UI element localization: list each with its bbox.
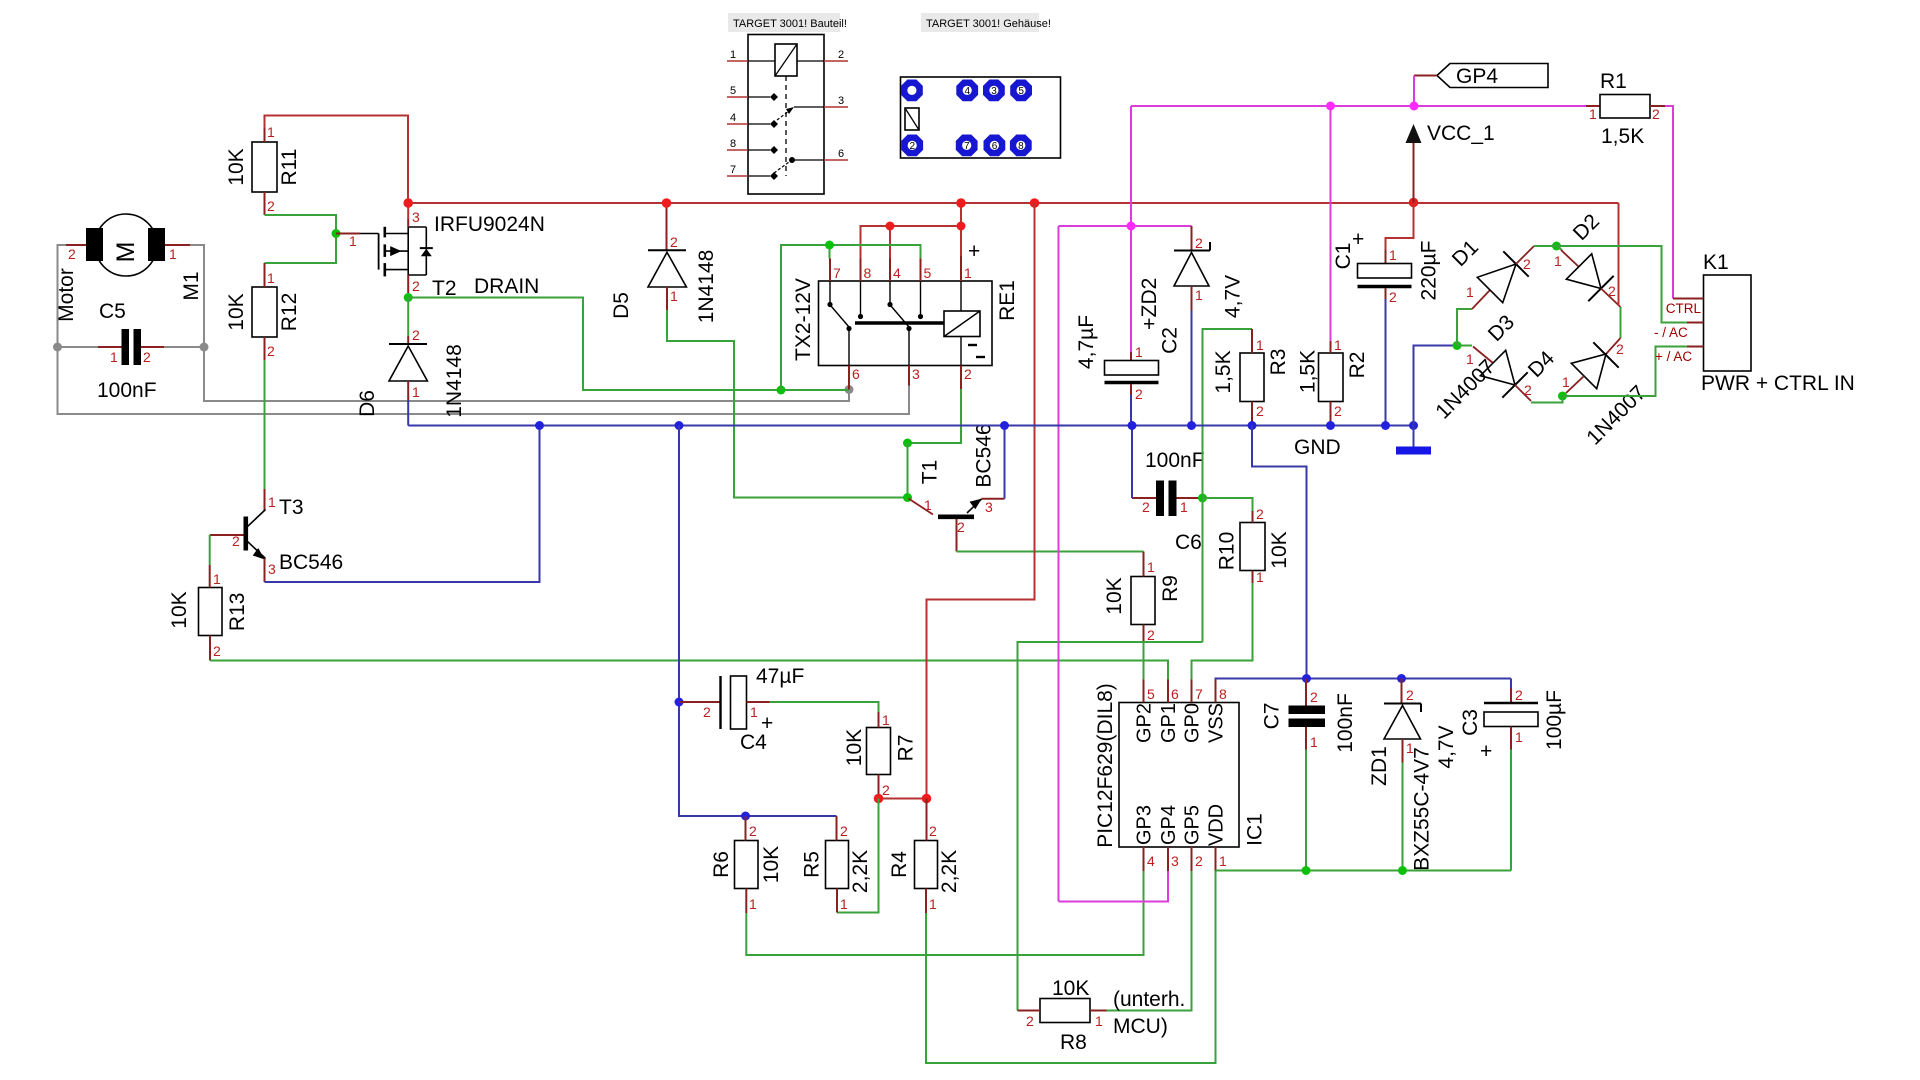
wire relay pins 7,5 green bracket — [781, 245, 921, 390]
node T1 collector top — [903, 439, 912, 448]
svg-text:MCU): MCU) — [1113, 1015, 1168, 1038]
diode D2 1N4007 — [1554, 210, 1621, 307]
svg-text:1: 1 — [1147, 559, 1155, 575]
wire T1 emitter to GND bus — [1004, 426, 1006, 499]
svg-text:GND: GND — [1294, 436, 1341, 459]
wire red net rail to R7/R4 — [927, 203, 1035, 799]
header label TARGET 3001! Gehaeuse! — [921, 13, 1051, 32]
wire red junction R7/R4/R5 — [879, 798, 927, 800]
svg-text:1: 1 — [1389, 247, 1397, 263]
junction VDD green dots — [1302, 866, 1311, 875]
wire drain net to relay pin 6 — [408, 298, 849, 391]
svg-text:GP4: GP4 — [1456, 65, 1498, 88]
svg-text:8: 8 — [1219, 686, 1227, 702]
svg-text:2: 2 — [1515, 687, 1523, 703]
svg-text:M1: M1 — [180, 271, 203, 300]
svg-text:8: 8 — [730, 138, 736, 150]
svg-text:1: 1 — [1515, 729, 1523, 745]
junction magenta dots — [1127, 102, 1419, 231]
svg-text:R11: R11 — [278, 149, 301, 186]
svg-text:R7: R7 — [895, 735, 918, 762]
svg-text:R4: R4 — [888, 851, 911, 878]
svg-text:1: 1 — [1256, 337, 1264, 353]
svg-text:GP0: GP0 — [1182, 703, 1204, 743]
svg-text:2: 2 — [1608, 283, 1616, 299]
node bridge left — [1453, 341, 1462, 350]
svg-text:D6: D6 — [356, 390, 379, 417]
pad 5 — [1010, 80, 1032, 102]
svg-text:1: 1 — [1180, 499, 1188, 515]
svg-text:M: M — [112, 242, 140, 263]
svg-text:+: + — [1143, 313, 1155, 336]
svg-text:1: 1 — [750, 704, 758, 720]
svg-text:- / AC: - / AC — [1654, 325, 1688, 340]
svg-text:ZD2: ZD2 — [1138, 278, 1161, 318]
svg-text:1: 1 — [1256, 569, 1264, 585]
svg-text:1: 1 — [267, 270, 275, 286]
svg-text:C4: C4 — [740, 731, 767, 754]
wire R12 to T3 collector — [264, 360, 266, 489]
svg-text:GP1: GP1 — [1158, 703, 1180, 743]
svg-text:2: 2 — [1142, 499, 1150, 515]
node bridge bottom — [1558, 392, 1567, 401]
node T1 collector — [903, 493, 912, 502]
pad 4 — [956, 80, 978, 102]
svg-text:47µF: 47µF — [756, 665, 804, 688]
pad 2 — [901, 135, 923, 157]
svg-text:R3: R3 — [1267, 349, 1290, 376]
svg-text:C5: C5 — [99, 300, 126, 323]
svg-text:6: 6 — [852, 366, 860, 382]
svg-text:1N4148: 1N4148 — [695, 250, 718, 324]
wire GND branch from bus — [1252, 426, 1307, 679]
svg-text:1: 1 — [1554, 253, 1562, 269]
svg-text:2: 2 — [964, 366, 972, 382]
svg-text:TARGET 3001! Bauteil!: TARGET 3001! Bauteil! — [733, 18, 847, 30]
svg-text:GP4: GP4 — [1158, 805, 1180, 845]
svg-text:1: 1 — [1334, 337, 1342, 353]
svg-text:1,5K: 1,5K — [1212, 350, 1235, 393]
svg-text:1,5K: 1,5K — [1601, 125, 1644, 148]
svg-text:GP3: GP3 — [1134, 805, 1156, 845]
wire R5 pin1 to red junction — [837, 799, 879, 913]
svg-text:100µF: 100µF — [1543, 690, 1566, 750]
wire GND bus — [408, 425, 1413, 427]
svg-text:1: 1 — [412, 384, 420, 400]
motor M1 — [55, 214, 203, 322]
capacitor C1 220uF — [1332, 203, 1441, 306]
svg-text:100nF: 100nF — [1334, 693, 1357, 753]
svg-text:2: 2 — [929, 823, 937, 839]
svg-text:2: 2 — [749, 823, 757, 839]
svg-text:1: 1 — [268, 494, 276, 510]
relay symbol box (library part preview) — [727, 35, 848, 195]
connector K1 — [1654, 251, 1855, 395]
node relay pin7 net joins drain line — [777, 386, 786, 395]
wire C6 pin2 to GND bus — [1131, 426, 1133, 499]
svg-text:2: 2 — [1389, 289, 1397, 305]
wire C1 to GND bus — [1385, 299, 1387, 426]
svg-text:R9: R9 — [1159, 575, 1182, 602]
svg-text:2: 2 — [957, 519, 965, 535]
resistor R2 — [1297, 337, 1370, 426]
svg-text:PIC12F629(DIL8): PIC12F629(DIL8) — [1094, 683, 1117, 848]
svg-text:1: 1 — [840, 896, 848, 912]
svg-text:+: + — [968, 240, 980, 263]
wire drain down to D6 — [407, 298, 409, 337]
wire GP2/R9 net y642 — [1018, 642, 1203, 1011]
svg-text:2: 2 — [232, 533, 240, 549]
svg-text:R1: R1 — [1600, 70, 1627, 93]
zener ZD1 BXZ55C-4V7 — [1368, 679, 1458, 871]
svg-text:C2: C2 — [1159, 327, 1182, 354]
wire D6 anode to GND bus — [407, 400, 409, 426]
wire T3 emitter to GND bus — [265, 426, 540, 583]
svg-text:CTRL: CTRL — [1666, 301, 1702, 316]
wire relay pins 8,4,1 to rail — [861, 203, 962, 259]
svg-text:C1: C1 — [1332, 243, 1355, 270]
svg-text:10K: 10K — [843, 729, 866, 766]
package footprint preview box — [901, 77, 1061, 158]
svg-text:R6: R6 — [710, 851, 733, 878]
svg-text:4,7V: 4,7V — [1435, 725, 1458, 768]
wire R10 pin1 down to GP0 — [1192, 583, 1253, 680]
junction blue dots C7/ZD1 top — [1302, 674, 1311, 683]
svg-text:5: 5 — [1147, 686, 1155, 702]
capacitor C7 100nF — [1261, 679, 1358, 753]
svg-text:TX2-12V: TX2-12V — [792, 278, 815, 361]
wire T3 base to R13 — [209, 535, 211, 565]
svg-text:3: 3 — [991, 86, 997, 97]
svg-text:1: 1 — [749, 896, 757, 912]
svg-text:10K: 10K — [1268, 531, 1291, 568]
svg-text:RE1: RE1 — [996, 280, 1019, 321]
diode D5 1N4148 — [610, 203, 718, 323]
resistor R5 — [801, 816, 873, 913]
svg-text:5: 5 — [924, 265, 932, 281]
svg-text:1: 1 — [349, 233, 357, 249]
svg-text:C7: C7 — [1261, 703, 1284, 730]
wire R13 to IC1 GP1 (long green) — [210, 661, 1168, 680]
svg-text:1: 1 — [1135, 344, 1143, 360]
svg-text:R12: R12 — [278, 293, 301, 332]
svg-text:3: 3 — [412, 209, 420, 225]
resistor R10 — [1216, 506, 1292, 585]
svg-text:1: 1 — [929, 896, 937, 912]
svg-text:2: 2 — [1195, 853, 1203, 869]
pad 7 — [956, 135, 978, 157]
svg-text:R13: R13 — [226, 593, 249, 632]
junction GND bus dots — [535, 421, 1418, 430]
svg-text:1: 1 — [1195, 287, 1203, 303]
svg-text:1: 1 — [1466, 284, 1474, 300]
svg-text:8: 8 — [864, 265, 872, 281]
junction C4 pin2 — [675, 698, 684, 707]
node C6 pin1 — [1198, 494, 1207, 503]
svg-text:5: 5 — [1018, 86, 1024, 97]
svg-text:C3: C3 — [1459, 709, 1482, 736]
svg-text:TARGET 3001! Gehäuse!: TARGET 3001! Gehäuse! — [926, 18, 1051, 30]
capacitor C6 100nF — [1132, 449, 1205, 554]
wire D5 anode to T1 collector — [667, 310, 908, 498]
svg-text:2: 2 — [670, 234, 678, 250]
resistor R11 — [225, 116, 301, 216]
svg-text:2: 2 — [1310, 689, 1318, 705]
pad 6 — [984, 135, 1006, 157]
svg-text:T3: T3 — [279, 496, 304, 519]
wire IC1 GP5 to R8 pin1 — [1107, 871, 1192, 1011]
capacitor C5 — [97, 300, 164, 402]
svg-text:2: 2 — [882, 782, 890, 798]
capacitor C2 4,7uF — [1075, 313, 1182, 402]
svg-text:10K: 10K — [225, 148, 248, 185]
svg-text:2: 2 — [412, 278, 420, 294]
svg-text:1: 1 — [1219, 853, 1227, 869]
svg-text:4: 4 — [1147, 853, 1155, 869]
svg-text:1: 1 — [1310, 734, 1318, 750]
svg-text:3: 3 — [838, 95, 844, 107]
svg-text:3: 3 — [1171, 853, 1179, 869]
node relay pin7 bracket — [825, 241, 834, 250]
svg-text:K1: K1 — [1703, 251, 1729, 274]
svg-text:7: 7 — [1195, 686, 1203, 702]
svg-text:R8: R8 — [1060, 1031, 1087, 1054]
svg-text:2,2K: 2,2K — [849, 850, 872, 893]
svg-text:7: 7 — [730, 164, 736, 176]
wire bridge bottom to K1 +/AC — [1563, 347, 1688, 397]
wire C2 to GND bus — [1130, 395, 1132, 426]
svg-text:C6: C6 — [1175, 531, 1202, 554]
wire R8 pin2 from GP2 net — [1017, 1010, 1019, 1012]
wire C6 node to R10 — [1203, 498, 1253, 511]
wire node down to collector — [907, 443, 909, 498]
svg-text:4: 4 — [965, 86, 971, 97]
wire motor/C5 gray net — [58, 245, 910, 414]
transistor T1 BC546 — [909, 423, 1005, 551]
svg-text:2: 2 — [1616, 341, 1624, 357]
resistor R4 — [888, 799, 961, 914]
svg-text:+ / AC: + / AC — [1655, 349, 1692, 364]
relay pin stubs — [829, 259, 831, 282]
svg-text:(unterh.: (unterh. — [1113, 988, 1185, 1011]
transistor T2 IRFU9024N — [336, 209, 545, 300]
node T2 drain — [404, 293, 413, 302]
wire relay pin2 to T1 collector — [908, 389, 962, 443]
svg-text:1,5K: 1,5K — [1297, 350, 1320, 393]
svg-text:R5: R5 — [801, 851, 824, 878]
svg-text:VCC_1: VCC_1 — [1427, 122, 1495, 145]
wire ZD2 to GND bus — [1191, 311, 1193, 426]
diode D4 1N4007 — [1524, 338, 1651, 450]
diode D3 1N4007 — [1431, 311, 1562, 424]
capacitor C4 47uF — [679, 665, 804, 754]
svg-text:2: 2 — [213, 643, 221, 659]
svg-text:4: 4 — [893, 265, 901, 281]
svg-text:1: 1 — [882, 712, 890, 728]
svg-text:VDD: VDD — [1206, 804, 1228, 846]
wire C6 node down to GP2 line — [1202, 498, 1204, 642]
svg-text:2: 2 — [703, 704, 711, 720]
svg-text:2: 2 — [1026, 1013, 1034, 1029]
svg-text:2: 2 — [1135, 386, 1143, 402]
resistor R1 — [1589, 70, 1660, 148]
svg-text:1: 1 — [213, 571, 221, 587]
resistor R13 — [168, 565, 249, 661]
node T2 gate junction — [332, 229, 341, 238]
wire bridge right node — [1619, 203, 1621, 338]
svg-text:6: 6 — [1171, 686, 1179, 702]
svg-text:6: 6 — [838, 148, 844, 160]
svg-text:GP2: GP2 — [1134, 703, 1156, 743]
svg-text:BXZ55C-4V7: BXZ55C-4V7 — [1411, 747, 1434, 871]
svg-text:1: 1 — [110, 349, 118, 365]
wire bridge top to K1 -/AC — [1557, 246, 1688, 323]
svg-text:1: 1 — [924, 497, 932, 513]
svg-text:1N4148: 1N4148 — [443, 344, 466, 418]
svg-text:2,2K: 2,2K — [938, 850, 961, 893]
junction red dots — [874, 794, 884, 804]
svg-text:R10: R10 — [1216, 532, 1239, 571]
svg-text:D5: D5 — [610, 292, 633, 319]
svg-text:2: 2 — [143, 349, 151, 365]
pad 3 — [983, 80, 1005, 102]
transistor T3 BC546 — [210, 489, 344, 582]
svg-text:5: 5 — [730, 85, 736, 97]
svg-text:2: 2 — [1195, 235, 1203, 251]
pin stubs of symbol preview — [727, 60, 748, 62]
capacitor C3 100uF — [1459, 679, 1566, 764]
wire GP4 magenta net — [1059, 106, 1601, 902]
svg-text:+: + — [1480, 740, 1492, 763]
svg-text:BC546: BC546 — [973, 423, 996, 487]
svg-text:100nF: 100nF — [97, 379, 157, 402]
pad 1 — [901, 80, 923, 102]
svg-text:1: 1 — [1589, 106, 1597, 122]
svg-text:2: 2 — [1256, 506, 1264, 522]
resistor R7 — [843, 712, 918, 799]
wire GND bus to bridge left node — [1414, 346, 1458, 426]
svg-text:1: 1 — [1095, 1013, 1103, 1029]
wire GND bus branch to C4/R6/R5 — [679, 426, 837, 817]
svg-text:1: 1 — [730, 49, 736, 61]
svg-text:2: 2 — [910, 141, 916, 152]
wire R11 top to VCC rail — [265, 116, 409, 204]
svg-text:IC1: IC1 — [1244, 813, 1267, 846]
svg-text:1: 1 — [267, 124, 275, 140]
ground symbol — [1396, 426, 1431, 451]
svg-text:4,7V: 4,7V — [1222, 275, 1245, 318]
pad 8 — [1010, 135, 1032, 157]
wire IC1 VSS to GND branch — [1216, 679, 1512, 680]
svg-text:4: 4 — [730, 112, 736, 124]
svg-text:1: 1 — [670, 288, 678, 304]
wire R6 pin1 to IC1 GP3 — [746, 871, 1143, 955]
wire R1 pin2 to K1 CTRL — [1650, 105, 1665, 107]
svg-text:PWR + CTRL IN: PWR + CTRL IN — [1701, 372, 1855, 395]
junction R6 pin2 — [741, 812, 750, 821]
svg-text:BC546: BC546 — [279, 551, 343, 574]
svg-text:4,7µF: 4,7µF — [1075, 315, 1098, 369]
svg-text:2: 2 — [1524, 382, 1532, 398]
svg-text:VSS: VSS — [1206, 703, 1228, 743]
node bridge top — [1552, 242, 1561, 251]
svg-text:3: 3 — [268, 561, 276, 577]
junction gray dots — [53, 343, 854, 395]
diode D1 1N4007 — [1448, 236, 1557, 346]
svg-text:2: 2 — [267, 343, 275, 359]
svg-text:2: 2 — [1523, 256, 1531, 272]
svg-text:1: 1 — [964, 265, 972, 281]
svg-text:3: 3 — [912, 366, 920, 382]
svg-text:10K: 10K — [168, 591, 191, 628]
svg-text:1: 1 — [1562, 374, 1570, 390]
svg-text:7: 7 — [964, 141, 970, 152]
wire C4 pin1 to R7 — [770, 702, 879, 712]
resistor R12 — [225, 263, 301, 360]
relay RE1 TX2-12V — [792, 240, 1019, 390]
resistor R8 — [1018, 977, 1186, 1054]
resistor R3 — [1212, 329, 1290, 426]
svg-text:2: 2 — [1334, 403, 1342, 419]
power symbol VCC_1 — [1406, 122, 1495, 203]
wire C6 node up to R3 — [1203, 329, 1253, 498]
svg-text:2: 2 — [1147, 627, 1155, 643]
svg-text:10K: 10K — [760, 846, 783, 883]
svg-text:220µF: 220µF — [1418, 241, 1441, 301]
svg-text:2: 2 — [838, 49, 844, 61]
wire T2 source to rail — [407, 203, 409, 219]
svg-text:10K: 10K — [225, 293, 248, 330]
zener ZD2 4,7V — [1138, 226, 1245, 318]
svg-text:2: 2 — [1406, 687, 1414, 703]
svg-text:2: 2 — [412, 327, 420, 343]
svg-text:8: 8 — [1018, 141, 1024, 152]
svg-text:ZD1: ZD1 — [1368, 746, 1391, 786]
wire R11/R12 to T2 gate (green bracket) — [265, 215, 337, 263]
wire VCC rail — [408, 202, 1618, 204]
junction rail dots — [403, 198, 1418, 208]
svg-text:R2: R2 — [1346, 352, 1369, 379]
svg-text:100nF: 100nF — [1145, 449, 1205, 472]
wire VDD net bottom — [1216, 750, 1512, 871]
svg-text:2: 2 — [267, 198, 275, 214]
svg-text:GP5: GP5 — [1182, 805, 1204, 845]
resistor R6 — [710, 816, 783, 913]
junction relay red — [886, 222, 895, 231]
svg-text:7: 7 — [833, 265, 841, 281]
svg-text:2: 2 — [840, 823, 848, 839]
wire T1 base to R9 — [957, 551, 1144, 553]
wire R4 pin1 to VDD net — [926, 871, 1216, 1063]
svg-text:10K: 10K — [1052, 977, 1089, 1000]
IC U1 PIC12F629 — [1094, 680, 1267, 872]
resistor R9 — [1103, 552, 1182, 644]
svg-text:DRAIN: DRAIN — [474, 275, 539, 298]
svg-text:6: 6 — [992, 141, 998, 152]
svg-text:2: 2 — [68, 246, 76, 262]
header label TARGET 3001! Bauteil! — [728, 13, 847, 32]
svg-text:2: 2 — [1256, 403, 1264, 419]
svg-text:2: 2 — [1652, 106, 1660, 122]
svg-text:T1: T1 — [919, 460, 942, 485]
net label GP4 flag — [1414, 64, 1548, 107]
svg-text:1: 1 — [169, 246, 177, 262]
svg-text:10K: 10K — [1103, 577, 1126, 614]
svg-text:3: 3 — [985, 499, 993, 515]
diode D6 1N4148 — [356, 327, 466, 418]
wire IC1 GP4 magenta — [1059, 871, 1169, 902]
svg-text:IRFU9024N: IRFU9024N — [434, 213, 545, 236]
